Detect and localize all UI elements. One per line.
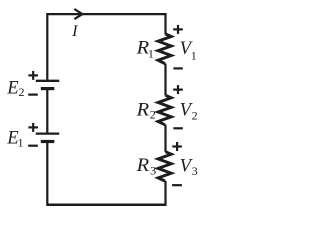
label R3 (135, 155, 156, 177)
label V1 (180, 38, 197, 62)
label V2 (180, 100, 198, 123)
svg-text:3: 3 (192, 164, 198, 178)
wire left lower (E1 to bottom corner) (46, 143, 48, 206)
label R1 (135, 37, 153, 60)
plus sign of V2 (173, 85, 183, 94)
wire right between R1 and R2 (164, 64, 166, 96)
wire right lower (R3 to bottom corner) (164, 181, 166, 206)
svg-text:E: E (6, 77, 19, 98)
svg-text:1: 1 (17, 136, 23, 150)
battery E2 (36, 81, 59, 89)
battery E1 (36, 134, 59, 142)
label R2 (135, 99, 155, 121)
resistor R2 (158, 95, 171, 125)
resistor R1 (158, 34, 171, 64)
svg-text:1: 1 (148, 47, 154, 61)
svg-text:R: R (135, 155, 149, 176)
svg-text:2: 2 (150, 107, 156, 121)
plus sign of E1 (28, 123, 38, 132)
svg-text:1: 1 (191, 49, 197, 63)
plus sign of V3 (172, 142, 182, 151)
label E2 (6, 77, 24, 99)
label E1 (6, 127, 23, 149)
minus sign of V1 (173, 67, 182, 69)
minus sign of V2 (173, 127, 182, 129)
current arrowhead (74, 9, 82, 19)
wire left upper (top corner to E2) (46, 13, 48, 80)
minus sign of E1 (28, 145, 38, 147)
plus sign of V1 (173, 25, 183, 34)
wire right upper (top corner to R1) (164, 13, 166, 35)
minus sign of E2 (28, 93, 38, 95)
wire right between R2 and R3 (164, 125, 166, 152)
wire left middle (E2 to E1) (46, 90, 48, 133)
svg-text:R: R (135, 99, 149, 120)
minus sign of V3 (172, 184, 182, 186)
wire top (47, 13, 165, 15)
wire bottom (47, 204, 165, 207)
plus sign of E2 (28, 71, 38, 80)
svg-text:3: 3 (150, 163, 156, 177)
resistor R3 (158, 152, 171, 181)
label V3 (180, 156, 198, 179)
svg-text:2: 2 (19, 85, 25, 99)
svg-text:2: 2 (192, 108, 198, 122)
